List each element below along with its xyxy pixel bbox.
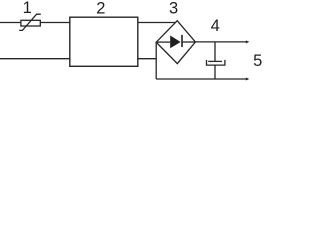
capacitor 4 bottom lead <box>214 65 216 79</box>
bridge rectifier 3 diamond <box>156 21 195 64</box>
diode triangle <box>170 36 180 49</box>
varistor 1 diagonal <box>19 14 41 30</box>
diode cathode bar <box>181 35 183 47</box>
svg-text:4: 4 <box>211 17 220 35</box>
wire <box>138 22 176 24</box>
wire <box>0 58 70 60</box>
wire <box>156 78 246 80</box>
wire <box>40 22 70 24</box>
diode cathode lead <box>182 41 195 43</box>
wire <box>138 58 156 60</box>
varistor 1 body <box>21 20 40 26</box>
capacitor 4 top lead <box>214 42 216 62</box>
wire <box>155 42 157 79</box>
power unit box 2 <box>70 17 138 66</box>
capacitor 4 cup <box>207 60 225 65</box>
svg-text:3: 3 <box>169 0 178 17</box>
arrow terminal bottom <box>246 78 250 81</box>
diode anode lead <box>156 41 170 43</box>
wire <box>195 41 246 43</box>
arrow terminal top <box>246 40 250 43</box>
svg-text:2: 2 <box>96 0 105 17</box>
capacitor 4 top plate <box>208 60 222 62</box>
wire <box>0 22 21 24</box>
svg-text:5: 5 <box>253 52 262 70</box>
svg-text:1: 1 <box>23 0 32 17</box>
